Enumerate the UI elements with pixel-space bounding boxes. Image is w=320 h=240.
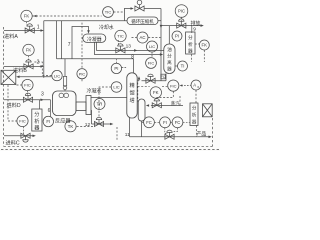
svg-text:PI: PI (175, 34, 179, 39)
signal dashed along column (137, 83, 139, 102)
condenser 冷凝器 (83, 34, 106, 42)
svg-text:冷却水: 冷却水 (99, 24, 114, 31)
pressure indicator PI (column) (111, 63, 121, 73)
signal FIC to valve 3 (27, 91, 29, 95)
signal LIC to outlet valve (99, 87, 111, 117)
signal analyzer down (191, 54, 193, 62)
arrowhead feed B (41, 65, 44, 68)
svg-text:馏: 馏 (129, 89, 134, 97)
temperature controller TIC (condenser) (115, 30, 126, 41)
svg-text:13: 13 (126, 44, 132, 50)
tap line to TI (175, 65, 177, 67)
stem nozzle circle (63, 86, 67, 90)
sample line to vent analyzer (191, 26, 193, 33)
svg-text:FC: FC (161, 75, 166, 79)
svg-text:分: 分 (192, 105, 197, 112)
separator riser (168, 26, 170, 44)
temperature recorder TR (94, 99, 105, 110)
reactor vessel (53, 91, 77, 116)
svg-text:PIC: PIC (178, 9, 185, 14)
svg-text:分: 分 (34, 110, 39, 118)
svg-text:产品: 产品 (197, 130, 207, 137)
stem into reactor (64, 90, 66, 91)
signal dashed bottom left (116, 127, 118, 141)
discharge link (158, 20, 161, 22)
svg-text:FIC: FIC (148, 61, 155, 66)
arrowhead down on discharge (160, 25, 163, 28)
temperature controller TIC (top) (103, 7, 114, 18)
FC box small (161, 74, 166, 79)
svg-text:TI: TI (181, 64, 185, 69)
signal FC-FI (155, 121, 160, 123)
arrowhead 产品 (209, 136, 212, 139)
arrowhead feed A (41, 29, 44, 32)
flow controller FIC (feed C) (17, 115, 28, 126)
arrowhead feed D (41, 99, 44, 102)
svg-text:进料C: 进料C (6, 139, 20, 147)
svg-text:进料A: 进料A (4, 32, 18, 40)
reflux arrow stem (138, 78, 140, 81)
svg-text:FK: FK (26, 48, 32, 53)
signal LIC to FIC (151, 52, 153, 58)
reboiler bottom outlet (141, 121, 143, 137)
signal FC2 to analyzer box (183, 121, 190, 123)
analyzer box (feed) (32, 109, 42, 131)
feed B pipe (4, 65, 42, 67)
signal A0 to FIC (181, 85, 191, 87)
control valve 2 (24, 60, 33, 69)
compressor 循环压缩机 (127, 17, 158, 25)
oil separator 油分离器 (164, 44, 175, 74)
steam pipe (151, 105, 183, 107)
svg-text:6: 6 (48, 108, 51, 114)
exchanger thin rect (86, 96, 91, 115)
svg-text:析: 析 (188, 41, 193, 48)
flow controller FK (column) (150, 87, 161, 98)
signal TK to outlet valve (77, 126, 93, 127)
level controller LIC (separator) (147, 41, 158, 52)
pipe 7 riser to condenser (72, 27, 89, 59)
signal AC right (148, 37, 160, 39)
signal analyzer to FK (195, 43, 199, 45)
flow controller FIC (feed D) (22, 79, 33, 90)
svg-text:进料D: 进料D (7, 101, 21, 109)
analyzer controller AC (137, 32, 148, 43)
flow controller FK (vent) (199, 40, 209, 50)
analyzer transmitter A0 (191, 80, 201, 90)
product control valve (165, 130, 174, 139)
svg-text:精: 精 (129, 81, 134, 89)
pressure controller PIC (vent) (175, 5, 188, 18)
signal dashed right of steam (179, 96, 181, 106)
svg-text:FK: FK (24, 14, 30, 19)
flow indicator FI (bottoms) (160, 117, 171, 128)
vapor header (57, 58, 134, 60)
svg-text:FIC: FIC (170, 83, 177, 88)
sample line to FI (50, 100, 52, 117)
signal TIC2 to valve 13 (118, 40, 120, 45)
flow controller FK1 (feed A) (21, 10, 32, 21)
svg-text:循环压缩机: 循环压缩机 (131, 18, 154, 25)
reactor outlet downcomer (90, 111, 93, 125)
svg-text:冷凝器: 冷凝器 (87, 36, 102, 43)
signal FIC to valve 4 (22, 127, 24, 134)
feed C pipe (4, 135, 33, 137)
second riser (61, 21, 63, 59)
signal FK1 to valve 1 (26, 22, 28, 26)
svg-text:PI: PI (114, 66, 118, 71)
signal X-box down (7, 85, 9, 121)
flow indicator FI (feed) (43, 116, 53, 126)
svg-text:FIC: FIC (19, 119, 26, 124)
svg-text:析: 析 (192, 112, 197, 119)
flow controller FK2 (feed B) (23, 44, 34, 55)
signal A0 down to analyzer (195, 90, 197, 103)
control valve 1 (25, 24, 34, 33)
heat exchanger X-box (left) (1, 70, 16, 84)
signal FK2 to valve 2 (28, 56, 30, 62)
signal X-box to FIC feed C (8, 120, 17, 122)
level controller LIC (reactor) (52, 70, 62, 80)
reflux pipe at column wall (137, 80, 139, 82)
recycle header to compressor (44, 20, 127, 22)
svg-text:TK: TK (68, 124, 74, 129)
signal PIC to vent valve (180, 17, 182, 21)
svg-text:LIC: LIC (113, 85, 119, 90)
signal reboiler-FC (142, 121, 143, 123)
arrowhead into condenser (87, 30, 90, 33)
arrowhead outlet to column (110, 123, 113, 126)
svg-text:3: 3 (41, 92, 44, 98)
arrowhead feed C (33, 135, 36, 138)
column inlet drop (133, 59, 135, 73)
signal line to PIC reactor (81, 23, 83, 69)
signal AC left (132, 37, 137, 39)
analyzer box (vent) (186, 32, 195, 54)
arrowhead vent 排放 (201, 24, 204, 27)
bypass pipe to discharge (144, 8, 161, 10)
separator bottom outlet (165, 74, 167, 81)
svg-text:分: 分 (188, 34, 193, 41)
bypass control valve (135, 0, 144, 11)
svg-text:PIC: PIC (79, 71, 86, 76)
svg-text:TIC: TIC (105, 10, 112, 15)
signal FK1 to TIC1 (32, 15, 101, 17)
arrowhead signal into FK1 (34, 15, 37, 17)
svg-text:蒸汽: 蒸汽 (171, 100, 180, 107)
svg-text:8: 8 (131, 55, 134, 61)
sample line to feed analyzer (39, 100, 41, 109)
product pipe (130, 136, 209, 138)
tap PI to header (115, 59, 117, 63)
feed A pipe (4, 30, 42, 32)
pressure indicator PI (vent) (172, 31, 182, 41)
steam control valve (152, 99, 161, 108)
svg-text:AC: AC (140, 35, 146, 40)
border left dashed (3, 27, 5, 146)
flow controller FC (bottoms) (144, 117, 155, 128)
condenser outlet pipe upper (97, 42, 164, 50)
agitator circles (59, 93, 64, 98)
border bottom dashed (4, 145, 214, 147)
svg-text:1: 1 (37, 24, 40, 30)
svg-text:FK: FK (202, 43, 208, 48)
svg-text:油: 油 (167, 46, 172, 53)
control valve 3 (23, 93, 32, 102)
control valve 4 (21, 133, 30, 142)
level controller LIC (column) (111, 82, 122, 93)
pressure controller PIC (reactor) (77, 69, 87, 79)
vent pipe (161, 25, 201, 27)
arrowhead bypass (131, 7, 134, 10)
svg-text:12: 12 (85, 122, 91, 128)
signal PI right (122, 66, 127, 68)
reactor riser to recycle (56, 21, 58, 59)
condensate pipe to column (91, 97, 127, 99)
svg-text:FC: FC (146, 120, 152, 125)
svg-text:FC: FC (175, 120, 181, 125)
column bottom outlet (129, 118, 131, 137)
signal LIC to valve 2 (34, 62, 52, 76)
svg-text:分: 分 (167, 53, 172, 60)
bypass pipe riser (124, 9, 132, 21)
border bottom outer dashed (1, 149, 219, 151)
arrowhead into FIC reflux (180, 84, 183, 86)
svg-text:析: 析 (34, 117, 39, 125)
arrowhead on upper outlet (134, 49, 137, 52)
signal X-box to FIC feed D (17, 84, 22, 86)
purge pipe into X-box (20, 76, 52, 78)
arrowhead into separator (160, 53, 163, 56)
sample dashed product analyzer (196, 126, 198, 137)
signal dashes left of FK column (138, 85, 150, 87)
svg-text:FK: FK (153, 90, 159, 95)
svg-text:TR: TR (97, 102, 103, 107)
temperature indicator TI (separator) (178, 61, 188, 71)
svg-text:FI: FI (46, 119, 50, 124)
signal FI-FC2 (171, 121, 172, 123)
border right lower dashed (211, 118, 213, 146)
heat exchanger X-box (product) (203, 104, 213, 117)
condenser outlet pipe lower (95, 42, 161, 54)
signal FK to steam valve (157, 91, 174, 100)
stem inline box (63, 76, 66, 85)
svg-text:LIC: LIC (149, 44, 155, 49)
temperature controller TK (reactor) (65, 121, 76, 132)
analyzer box (product) (190, 103, 198, 126)
reflux pipe from column (142, 80, 167, 82)
outlet pipe to column (92, 123, 111, 125)
svg-text:A: A (193, 83, 196, 88)
reactor vapor stem (64, 59, 66, 85)
signal FI to product valve (165, 128, 168, 134)
reactor outlet nozzle box (76, 102, 86, 111)
signal dashes between FKs (162, 85, 167, 87)
signal TIC1 to bypass valve (114, 11, 125, 13)
reboiler vessel (138, 99, 145, 121)
svg-text:塔: 塔 (129, 96, 135, 104)
arrowhead up at column (138, 76, 141, 79)
signal FC2 to product valve (172, 128, 177, 131)
arrowhead into X-box (16, 76, 19, 79)
discharge downcomer (160, 9, 162, 81)
control valve reflux (146, 74, 155, 83)
arrowhead steam into reboiler (146, 104, 149, 107)
svg-text:FIC: FIC (24, 83, 31, 88)
flow controller FC2 (bottoms) (172, 117, 183, 128)
svg-text:LIC: LIC (54, 73, 60, 78)
control valve 13 (116, 44, 125, 53)
svg-text:器: 器 (34, 125, 40, 132)
flow controller FIC (condensate) (146, 58, 157, 69)
svg-text:离: 离 (167, 59, 172, 66)
svg-text:7: 7 (68, 42, 71, 48)
distillation column 精馏塔 (127, 73, 137, 118)
tap below PIC reactor (81, 79, 83, 81)
svg-text:0: 0 (197, 85, 199, 89)
signal FK down (203, 50, 205, 62)
svg-text:TIC: TIC (117, 34, 124, 39)
flow controller FIC (reflux) (168, 80, 179, 91)
feed header vertical (43, 21, 45, 78)
vent control valve (177, 19, 186, 28)
control valve reactor outlet (94, 117, 103, 126)
feed D pipe (4, 99, 51, 101)
svg-text:FI: FI (163, 120, 167, 125)
